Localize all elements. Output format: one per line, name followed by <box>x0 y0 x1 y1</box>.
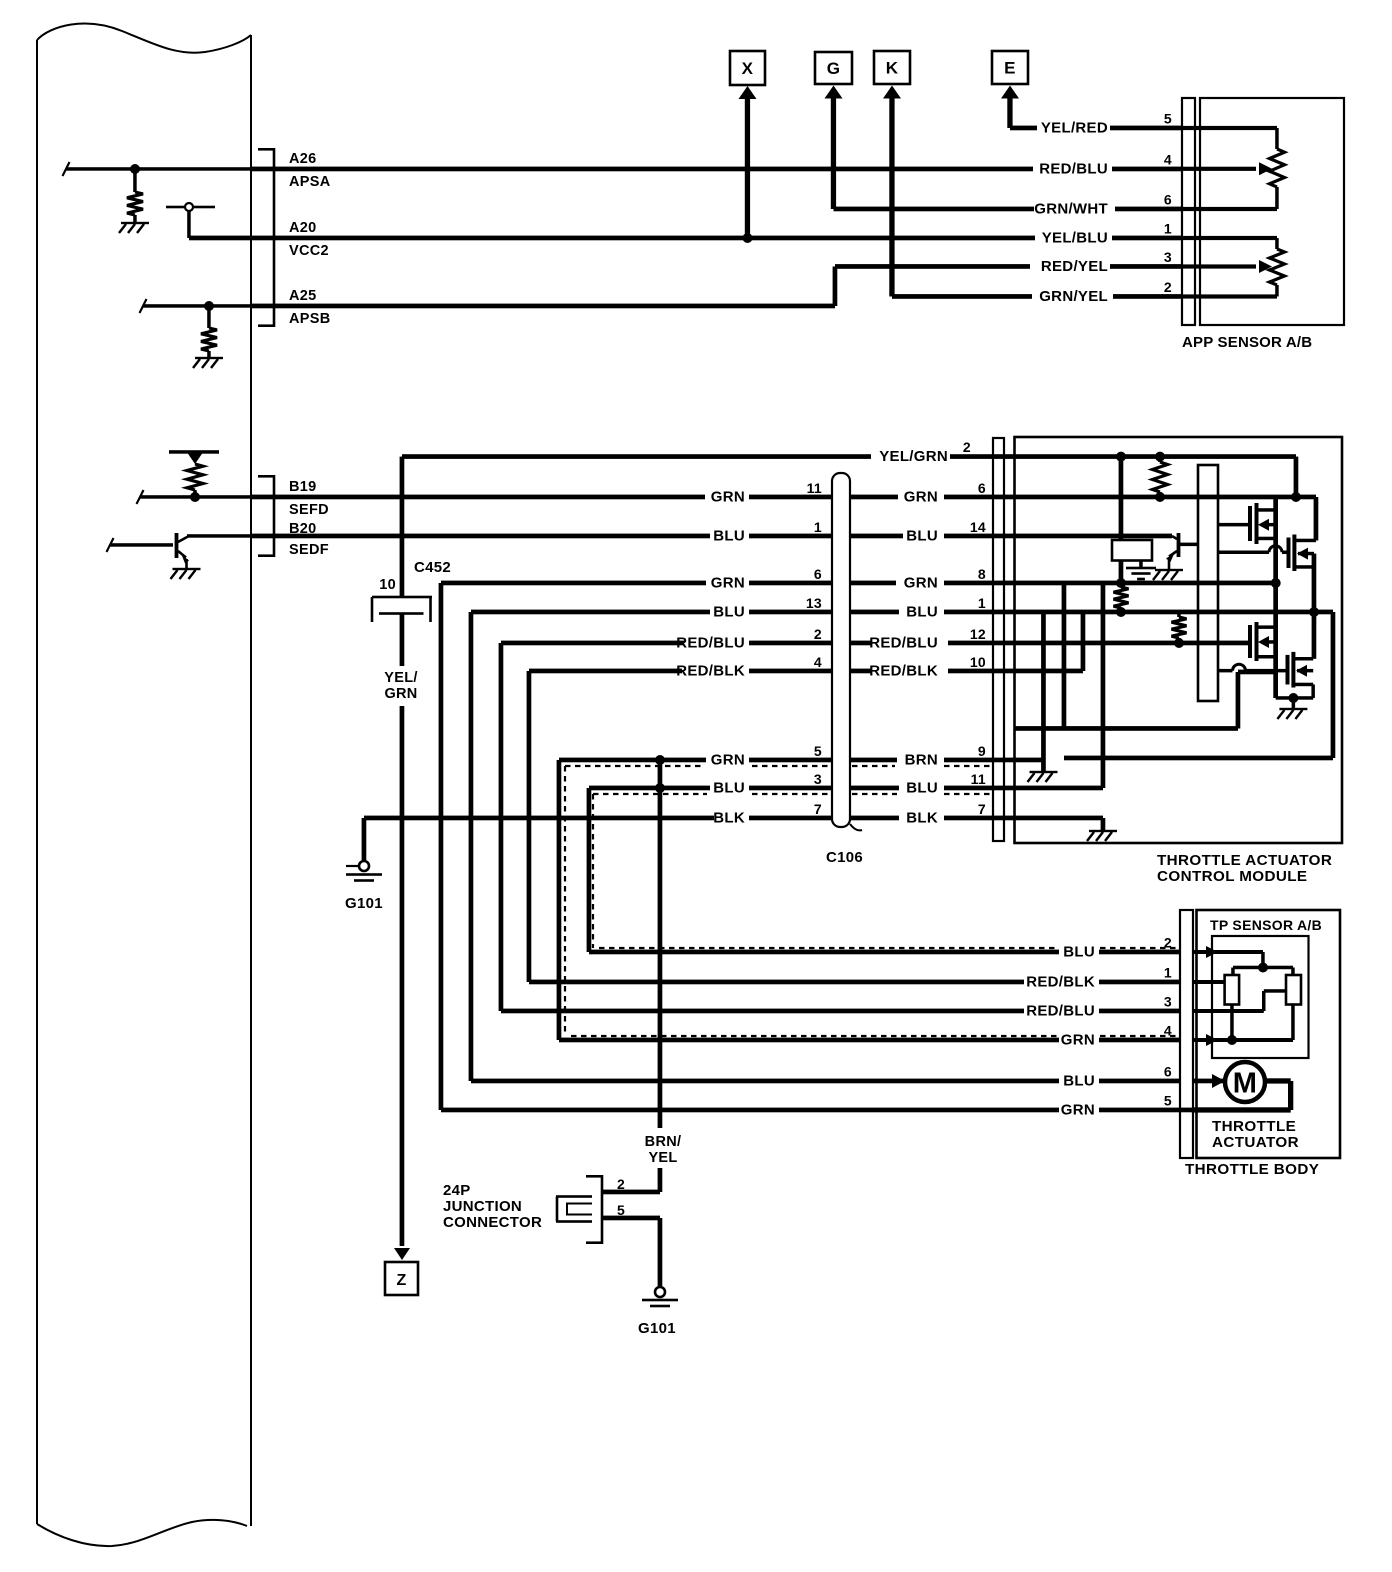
svg-text:CONNECTOR: CONNECTOR <box>443 1214 542 1231</box>
svg-text:5: 5 <box>1164 1093 1172 1109</box>
svg-text:11: 11 <box>807 480 822 496</box>
svg-text:RED/BLK: RED/BLK <box>1026 974 1095 991</box>
svg-text:GRN: GRN <box>711 489 745 506</box>
svg-text:2: 2 <box>1164 935 1172 951</box>
svg-text:3: 3 <box>814 771 822 787</box>
svg-text:Z: Z <box>396 1272 406 1289</box>
svg-text:SEDF: SEDF <box>289 542 329 558</box>
svg-text:THROTTLE BODY: THROTTLE BODY <box>1185 1161 1319 1178</box>
svg-text:BLU: BLU <box>713 604 745 621</box>
svg-text:6: 6 <box>1164 1064 1172 1080</box>
svg-text:4: 4 <box>1164 152 1172 168</box>
svg-text:YEL/BLU: YEL/BLU <box>1042 230 1108 247</box>
svg-text:CONTROL MODULE: CONTROL MODULE <box>1157 868 1307 885</box>
svg-text:A26: A26 <box>289 151 317 167</box>
svg-text:10: 10 <box>970 654 986 670</box>
svg-text:2: 2 <box>1164 279 1172 295</box>
svg-text:5: 5 <box>814 743 822 759</box>
svg-text:APSA: APSA <box>289 174 331 190</box>
svg-text:10: 10 <box>379 577 396 593</box>
svg-text:6: 6 <box>814 566 822 582</box>
svg-text:GRN/WHT: GRN/WHT <box>1034 201 1108 218</box>
svg-text:GRN/YEL: GRN/YEL <box>1039 288 1108 305</box>
svg-text:THROTTLE ACTUATOR: THROTTLE ACTUATOR <box>1157 852 1332 869</box>
svg-text:14: 14 <box>970 519 986 535</box>
svg-text:6: 6 <box>1164 192 1172 208</box>
svg-text:JUNCTION: JUNCTION <box>443 1198 522 1215</box>
svg-text:GRN: GRN <box>1061 1102 1095 1119</box>
svg-text:RED/BLU: RED/BLU <box>1026 1003 1095 1020</box>
svg-text:8: 8 <box>978 566 986 582</box>
svg-text:RED/BLU: RED/BLU <box>676 635 745 652</box>
svg-text:5: 5 <box>1164 111 1172 127</box>
svg-text:BRN/: BRN/ <box>645 1134 682 1150</box>
svg-text:1: 1 <box>1164 221 1172 237</box>
svg-text:1: 1 <box>978 595 986 611</box>
svg-text:THROTTLE: THROTTLE <box>1212 1118 1296 1135</box>
svg-text:A20: A20 <box>289 220 317 236</box>
svg-text:RED/YEL: RED/YEL <box>1041 258 1108 275</box>
svg-text:TP SENSOR A/B: TP SENSOR A/B <box>1210 917 1322 933</box>
svg-text:GRN: GRN <box>1061 1032 1095 1049</box>
svg-text:4: 4 <box>814 654 822 670</box>
svg-text:X: X <box>742 59 754 78</box>
svg-text:M: M <box>1233 1068 1257 1100</box>
svg-text:GRN: GRN <box>904 575 938 592</box>
svg-text:BLU: BLU <box>713 780 745 797</box>
svg-text:BLU: BLU <box>906 780 938 797</box>
svg-text:9: 9 <box>978 743 986 759</box>
svg-text:RED/BLU: RED/BLU <box>869 635 938 652</box>
svg-text:B19: B19 <box>289 479 317 495</box>
svg-text:2: 2 <box>963 439 971 455</box>
svg-text:BLU: BLU <box>1063 944 1095 961</box>
svg-text:2: 2 <box>814 626 822 642</box>
svg-text:7: 7 <box>814 801 822 817</box>
svg-text:YEL/RED: YEL/RED <box>1041 120 1108 137</box>
svg-text:RED/BLK: RED/BLK <box>869 663 938 680</box>
svg-text:APP SENSOR A/B: APP SENSOR A/B <box>1182 334 1312 351</box>
svg-text:K: K <box>886 59 899 78</box>
svg-text:C452: C452 <box>414 559 451 576</box>
svg-text:ACTUATOR: ACTUATOR <box>1212 1134 1299 1151</box>
svg-text:7: 7 <box>978 801 986 817</box>
svg-text:6: 6 <box>978 480 986 496</box>
svg-text:BLU: BLU <box>906 604 938 621</box>
svg-text:3: 3 <box>1164 994 1172 1010</box>
svg-text:G101: G101 <box>345 895 383 912</box>
svg-text:VCC2: VCC2 <box>289 243 329 259</box>
svg-text:GRN: GRN <box>384 686 417 702</box>
svg-text:C106: C106 <box>826 849 863 866</box>
svg-text:YEL/GRN: YEL/GRN <box>879 448 948 465</box>
svg-text:24P: 24P <box>443 1182 471 1199</box>
svg-text:APSB: APSB <box>289 311 331 327</box>
svg-text:4: 4 <box>1164 1023 1172 1039</box>
svg-text:RED/BLK: RED/BLK <box>676 663 745 680</box>
svg-text:GRN: GRN <box>711 752 745 769</box>
svg-text:GRN: GRN <box>904 489 938 506</box>
svg-text:1: 1 <box>814 519 822 535</box>
svg-text:BLK: BLK <box>713 810 745 827</box>
svg-text:SEFD: SEFD <box>289 502 329 518</box>
svg-text:BLU: BLU <box>906 528 938 545</box>
svg-text:1: 1 <box>1164 965 1172 981</box>
svg-text:A25: A25 <box>289 288 317 304</box>
svg-text:BLU: BLU <box>713 528 745 545</box>
svg-text:YEL: YEL <box>648 1150 677 1166</box>
svg-text:G101: G101 <box>638 1320 676 1337</box>
svg-text:3: 3 <box>1164 249 1172 265</box>
svg-text:GRN: GRN <box>711 575 745 592</box>
svg-text:12: 12 <box>970 626 986 642</box>
svg-text:11: 11 <box>971 771 986 787</box>
svg-text:BLK: BLK <box>906 810 938 827</box>
svg-text:BRN: BRN <box>905 752 938 769</box>
svg-text:YEL/: YEL/ <box>384 670 417 686</box>
svg-text:RED/BLU: RED/BLU <box>1039 161 1108 178</box>
svg-text:13: 13 <box>806 595 822 611</box>
svg-text:BLU: BLU <box>1063 1073 1095 1090</box>
svg-text:G: G <box>827 59 841 78</box>
svg-text:E: E <box>1004 59 1016 78</box>
